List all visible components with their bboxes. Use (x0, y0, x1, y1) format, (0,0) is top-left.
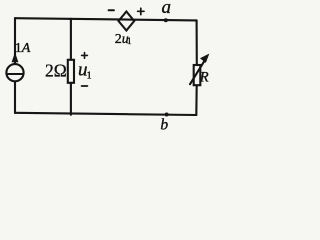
svg-text:a: a (162, 0, 172, 18)
resistor R (194, 65, 201, 85)
resistor 2ohm (68, 60, 74, 83)
current source arrow (12, 54, 17, 62)
dependent source diamond (119, 12, 135, 31)
node a dot (164, 18, 168, 22)
resistor R arrowhead (201, 55, 209, 62)
resistor R arrow line (190, 61, 205, 84)
wire left (14, 18, 16, 64)
wire left lower (14, 81, 16, 113)
wire right top (196, 20, 198, 64)
svg-text:2Ω: 2Ω (45, 61, 67, 81)
current source I1 circle (6, 64, 23, 81)
svg-text:b: b (160, 116, 168, 133)
wire right bottom (195, 86, 197, 116)
wire top (15, 18, 197, 20)
plus sign of u1 (82, 53, 88, 59)
current source bar (7, 73, 24, 75)
node b dot (165, 113, 169, 117)
svg-text:1: 1 (127, 36, 132, 46)
wire bottom (15, 113, 196, 115)
plus sign of diamond (138, 8, 144, 14)
minus sign of diamond (109, 9, 114, 11)
svg-text:1: 1 (87, 71, 92, 82)
svg-text:R: R (199, 69, 209, 85)
minus sign of u1 (82, 85, 88, 87)
wire middle top (70, 19, 72, 60)
wire middle bottom (70, 83, 72, 115)
svg-text:1A: 1A (15, 41, 31, 56)
